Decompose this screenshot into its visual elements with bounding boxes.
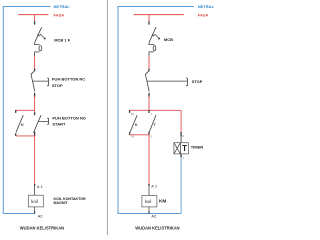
panel divider bbox=[106, 0, 108, 235]
wire: NETRAL bus (blue) with left riser and bottom return bbox=[118, 7, 194, 214]
wire: red stub from FASA to MCB bbox=[148, 15, 150, 22]
pushbutton STOP top terminal tick bbox=[34, 69, 36, 71]
svg-text:A2: A2 bbox=[38, 213, 44, 218]
timer T1 box bbox=[174, 143, 189, 154]
mcb Q2 top terminal tick bbox=[148, 21, 150, 24]
mcb Q1 top terminal tick bbox=[34, 21, 36, 24]
mcb Q2 hook bbox=[152, 34, 160, 39]
svg-text:WUDAN KELISTRIKAN: WUDAN KELISTRIKAN bbox=[135, 226, 179, 231]
contact K bottom terminal tick bbox=[15, 133, 17, 136]
svg-text:WUDAN KELISTRIKAN: WUDAN KELISTRIKAN bbox=[20, 226, 64, 231]
wire: coil KM A2 lead bbox=[148, 207, 150, 214]
svg-text:A 1: A 1 bbox=[151, 184, 158, 189]
wire: red STOP to junction bbox=[34, 97, 36, 113]
pushbutton STOP2 actuator and button bar bbox=[147, 78, 187, 86]
coil KM A2 terminal tick bbox=[148, 212, 150, 214]
pushbutton START actuator and button bar bbox=[38, 118, 48, 124]
wire: FASA bus (red) bbox=[18, 14, 48, 16]
contact T NO blade bbox=[149, 115, 156, 132]
contact K2 bottom terminal tick bbox=[129, 132, 131, 135]
mcb Q1 hook bbox=[38, 34, 46, 39]
svg-text:A2: A2 bbox=[151, 214, 157, 219]
pushbutton STOP NC blade bbox=[31, 71, 35, 92]
timer top terminal tick bbox=[180, 132, 182, 137]
svg-text:STOP: STOP bbox=[52, 83, 63, 88]
svg-text:NETRAL: NETRAL bbox=[54, 4, 71, 9]
coil K box bbox=[28, 195, 43, 207]
svg-text:START: START bbox=[52, 122, 66, 127]
contact K NO blade bbox=[16, 115, 23, 132]
svg-text:NETRAL: NETRAL bbox=[198, 4, 215, 9]
pushbutton STOP actuator and button bar bbox=[33, 78, 49, 86]
timer bottom terminal tick bbox=[180, 154, 182, 157]
timer T1 crossed cell bbox=[174, 143, 181, 154]
svg-text:PUH BOTTON NC: PUH BOTTON NC bbox=[52, 77, 85, 82]
wire: FASA bus (red) bbox=[134, 14, 184, 16]
contact K2 NO blade bbox=[130, 115, 137, 132]
contact T bottom terminal tick bbox=[148, 132, 150, 135]
svg-text:A 1: A 1 bbox=[37, 184, 44, 189]
wire: red stub from FASA to MCB bbox=[34, 15, 36, 22]
mcb Q2 thermal element bump bbox=[149, 43, 154, 57]
wire: red junction rail to K branch and timer branch bbox=[130, 109, 182, 111]
svg-text:FASA: FASA bbox=[198, 12, 209, 17]
coil K A1 terminal tick bbox=[34, 184, 36, 186]
wire: coil A2 lead bbox=[34, 207, 36, 214]
svg-text:MCB 1 F: MCB 1 F bbox=[54, 37, 71, 42]
wire: red MCB to STOP bbox=[148, 57, 150, 69]
svg-text:koil: koil bbox=[145, 199, 152, 204]
wire: red branch to K contact (top) bbox=[16, 109, 35, 111]
wire: red main down to coil bbox=[34, 136, 36, 184]
wire: coil A1 lead bbox=[34, 186, 36, 195]
wire: red main down to coil KM bbox=[148, 135, 150, 184]
wire: red branch from K contact (bottom) bbox=[16, 135, 35, 137]
wire: red bottom rail from K branch bbox=[130, 134, 149, 136]
wire: timer lead into box bbox=[180, 137, 182, 154]
svg-text:PUH BOTTON NO: PUH BOTTON NO bbox=[52, 116, 85, 121]
pushbutton STOP2 bottom terminal tick bbox=[148, 93, 150, 97]
wire: red timer branch drop bbox=[180, 110, 182, 132]
pushbutton START top terminal tick bbox=[34, 112, 36, 115]
svg-text:STOP: STOP bbox=[192, 79, 203, 84]
pushbutton START NO blade bbox=[34, 115, 42, 132]
svg-text:MCB: MCB bbox=[164, 37, 173, 42]
wire: blue timer to netral return bbox=[180, 157, 182, 213]
contact K2 top terminal tick bbox=[129, 110, 131, 113]
mcb Q1 blade bbox=[35, 27, 42, 43]
svg-text:TIMER: TIMER bbox=[191, 144, 204, 149]
pushbutton STOP2 NC blade bbox=[145, 71, 149, 92]
pushbutton START bottom terminal tick bbox=[34, 132, 36, 136]
svg-text:MAGNIT: MAGNIT bbox=[54, 201, 69, 205]
mcb Q1 thermal element oval bbox=[39, 46, 42, 51]
pushbutton STOP bottom terminal tick bbox=[34, 93, 36, 97]
pushbutton STOP2 top terminal tick bbox=[148, 69, 150, 71]
mcb Q1 thermal element bump bbox=[35, 43, 40, 57]
wire: NETRAL bus (blue) with left riser and bottom return bbox=[3, 7, 50, 214]
contact T top terminal tick bbox=[148, 110, 150, 113]
svg-text:T: T bbox=[182, 144, 187, 153]
coil KM box bbox=[142, 196, 157, 207]
wire: red STOP to junction bbox=[148, 97, 150, 113]
wire: coil KM A1 lead bbox=[148, 186, 150, 195]
wire: red MCB to STOP bbox=[34, 57, 36, 69]
contact K top terminal tick bbox=[15, 110, 17, 113]
svg-text:koil: koil bbox=[31, 199, 38, 204]
coil K A2 terminal tick bbox=[34, 212, 36, 214]
svg-text:FASA: FASA bbox=[54, 12, 65, 17]
svg-text:KM: KM bbox=[159, 199, 166, 204]
mcb Q2 thermal element oval bbox=[153, 46, 156, 51]
coil KM A1 terminal tick bbox=[148, 184, 150, 186]
mcb Q2 blade bbox=[149, 27, 156, 43]
